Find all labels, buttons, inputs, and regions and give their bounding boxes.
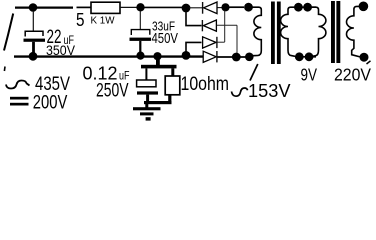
resistor R1 box	[91, 2, 120, 13]
stray tick mark	[3, 67, 6, 72]
node junction winding B bottom	[295, 52, 304, 61]
node junction winding D top	[359, 2, 369, 12]
capacitor C2 bottom plate	[130, 38, 152, 41]
node junction winding A top	[244, 3, 253, 12]
ground bar 2	[140, 112, 154, 115]
leader line for 153V	[250, 64, 258, 81]
wire column D2 anode down to AC2	[236, 25, 238, 53]
AC symbol for 153V	[232, 88, 248, 96]
node junction winding B top	[294, 3, 303, 12]
transformer T2 primary winding C	[312, 7, 326, 56]
wire bridge node to diode D2	[186, 9, 202, 26]
node junction winding A bottom	[245, 53, 254, 62]
wire resistor R1 to node	[120, 6, 137, 8]
transformer T1 secondary winding B	[281, 7, 295, 56]
capacitor C1 bottom plate	[24, 39, 46, 42]
RC network T bar	[141, 65, 177, 69]
transformer T2 core	[331, 1, 335, 63]
node junction winding C top	[303, 3, 312, 12]
svg-text:10ohm: 10ohm	[181, 74, 230, 95]
diode D1 cathode bar	[202, 2, 204, 14]
wire AC2 bus segment	[217, 56, 246, 58]
wire capacitor C3 bottom lead	[146, 95, 149, 102]
node junction bridge top left	[182, 4, 191, 13]
wire resistor R2 top lead	[171, 68, 174, 76]
AC symbol for 435V	[6, 81, 30, 89]
diode D2 cathode bar	[201, 20, 203, 31]
svg-text:9V: 9V	[301, 65, 318, 85]
ground bar 3	[146, 117, 151, 120]
wire capacitor C1 bottom lead	[32, 42, 35, 53]
wire resistor R2 bottom lead	[168, 95, 171, 103]
svg-text:5: 5	[76, 9, 85, 30]
node junction AC2 a	[232, 53, 241, 62]
ground bar 1	[133, 107, 161, 110]
diode D1 anode wire	[189, 7, 202, 9]
transformer T2 secondary winding D	[347, 6, 361, 57]
diode D3 triangle	[203, 37, 216, 48]
node junction C2 top	[136, 3, 144, 11]
node junction bottom left	[29, 52, 38, 61]
diode D2 anode wire to column	[217, 24, 237, 26]
diode D3 right wire	[217, 41, 224, 43]
node junction bridge bottom left	[182, 51, 191, 60]
wire node to bridge	[145, 6, 184, 8]
wire top rail B+ left	[15, 6, 73, 8]
AC input diagonal line	[4, 14, 13, 51]
diode D4 cathode bar	[216, 51, 218, 62]
wire top rail B+ to resistor	[77, 6, 92, 8]
wire between top middle nodes	[299, 6, 316, 8]
node junction winding C bottom	[305, 52, 314, 61]
svg-text:220V: 220V	[334, 65, 371, 85]
svg-text:200V: 200V	[33, 93, 68, 114]
wire capacitor C2 top lead	[139, 11, 141, 29]
resistor R2 box	[165, 76, 180, 95]
capacitor C3 bottom plate	[137, 91, 158, 94]
stray mark above 220V	[367, 61, 371, 64]
node junction winding D bottom	[360, 53, 369, 62]
svg-text:K 1W: K 1W	[91, 15, 115, 27]
wire capacitor C3 top lead	[145, 68, 147, 80]
capacitor C2 top plate	[131, 30, 150, 35]
diode D3 cathode bar	[216, 37, 218, 48]
wire capacitor C1 top lead	[32, 11, 34, 31]
DC symbol for 200V	[10, 97, 29, 100]
wire ground stem	[145, 104, 148, 108]
diode D1 triangle	[204, 2, 217, 14]
node junction on top rail	[29, 3, 38, 12]
RC network stub from bus	[156, 58, 160, 65]
node junction RC network top	[153, 52, 161, 60]
svg-text:153V: 153V	[248, 81, 291, 101]
wire between bottom middle nodes	[295, 56, 316, 58]
wire bottom rail B-	[14, 55, 203, 57]
wire bridge node to diode D3	[186, 42, 202, 53]
diode D4 triangle	[203, 51, 216, 62]
wire RC bottom connector	[144, 101, 172, 104]
capacitor C3 top plate	[137, 80, 156, 87]
wire capacitor C2 bottom lead	[139, 41, 141, 53]
wire column D3 cathode up to AC1	[224, 11, 226, 43]
svg-text:250V: 250V	[96, 80, 129, 101]
transformer T1 primary winding A	[253, 7, 262, 56]
svg-text:450V: 450V	[152, 31, 179, 47]
wire AC1 to winding	[230, 6, 245, 8]
transformer T1 core	[271, 2, 275, 65]
capacitor C1 top plate	[25, 31, 43, 36]
node junction C2 bottom	[136, 52, 144, 60]
diode D1 right wire	[218, 7, 223, 9]
diode D2 triangle	[203, 20, 216, 31]
node junction AC1 top	[221, 3, 229, 11]
